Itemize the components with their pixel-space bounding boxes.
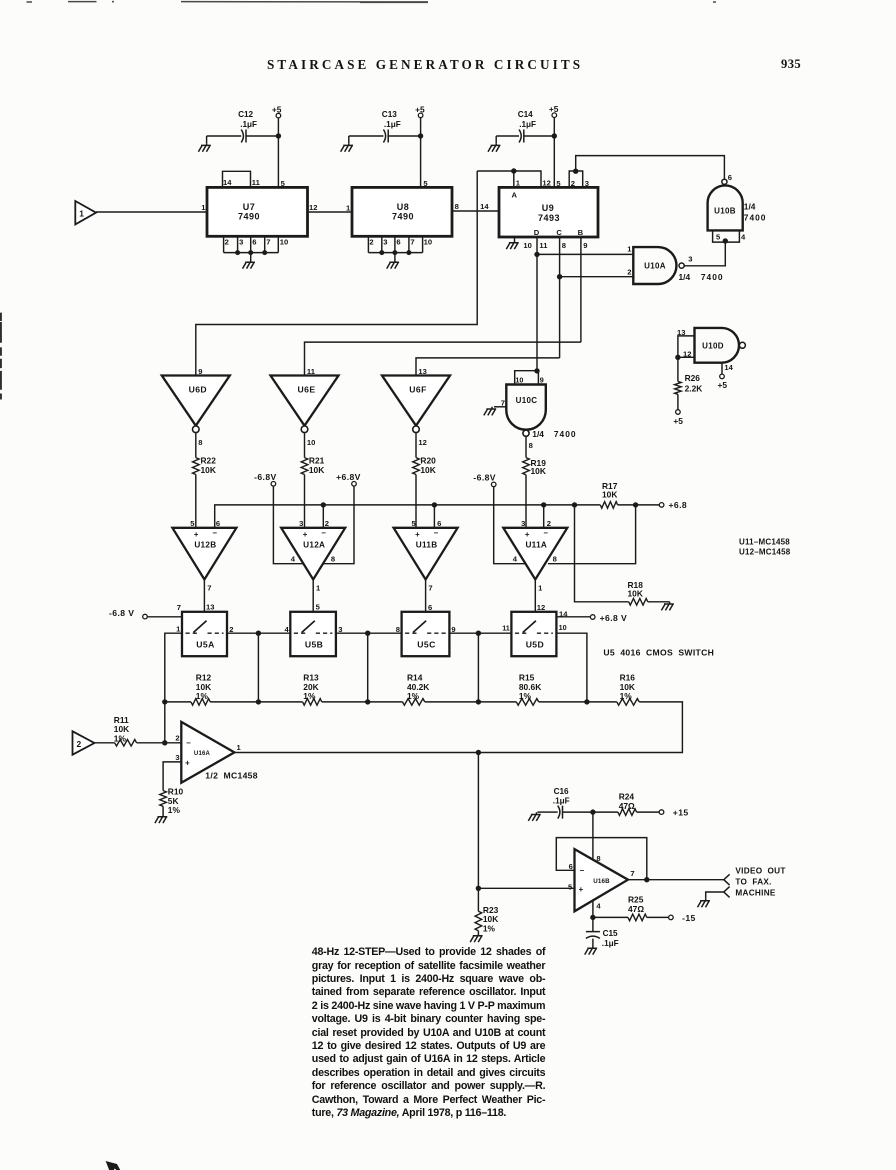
U8 pin8 label xyxy=(455,202,459,211)
wire junction to +5 terminal xyxy=(277,118,279,136)
U12A -input pin label xyxy=(325,519,329,528)
inverter U6F xyxy=(382,376,450,433)
wire junction to U16B pin8 xyxy=(592,812,594,859)
svg-text:B: B xyxy=(578,228,584,237)
svg-text:9: 9 xyxy=(583,241,587,250)
wire U16B output xyxy=(628,879,724,881)
capacitor C16 xyxy=(553,787,570,819)
junction switch link1 xyxy=(256,631,261,636)
input terminal 1 xyxy=(75,201,96,224)
U11B output pin label xyxy=(428,583,432,592)
input terminal 2 xyxy=(73,731,95,754)
svg-text:R20: R20 xyxy=(420,455,436,465)
svg-text:3: 3 xyxy=(338,625,342,634)
junction QD to U10A xyxy=(534,252,539,257)
svg-text:10: 10 xyxy=(515,375,523,384)
ground (R23) xyxy=(470,934,482,943)
svg-text:12: 12 xyxy=(418,438,426,447)
U9 reset pins 2-3 jumper xyxy=(569,171,583,187)
svg-text:+5: +5 xyxy=(272,105,282,115)
wire C12 to +5 junction xyxy=(246,135,278,137)
svg-text:1%: 1% xyxy=(483,924,496,934)
resistor R26 2.2K xyxy=(675,357,703,409)
U16B feedback loop wire xyxy=(556,838,647,880)
svg-text:R24: R24 xyxy=(619,791,635,801)
wire bus to U12A pin2 xyxy=(322,505,324,528)
svg-text:U9: U9 xyxy=(542,203,555,213)
junction U7 pin7 stub xyxy=(262,250,267,255)
U16A output pin1 label xyxy=(237,743,242,752)
wire U9 QB pin9 down xyxy=(580,237,582,342)
wire U5C pin9 to U5D pin11 xyxy=(449,632,511,634)
svg-text:+6.8V: +6.8V xyxy=(336,472,361,482)
U10A pin1 label xyxy=(627,245,632,254)
junction U16B output xyxy=(644,877,649,882)
svg-text:1: 1 xyxy=(627,245,632,254)
wire U9 QC pin8 down xyxy=(559,237,561,358)
U16B pin8 label xyxy=(596,854,600,863)
U11A output pin label xyxy=(538,583,543,592)
svg-text:.1μF: .1μF xyxy=(602,939,619,948)
junction bus link2 xyxy=(365,699,370,704)
U5 type note xyxy=(603,647,714,657)
analog switch U5D xyxy=(511,612,556,656)
U10C pin9 label xyxy=(540,375,544,384)
wire U5A pin1 to summing bus xyxy=(165,633,182,702)
svg-text:U10D: U10D xyxy=(702,341,724,350)
U10D input jumper xyxy=(678,336,695,357)
svg-text:3: 3 xyxy=(299,519,303,528)
wire -6.8V to U5A pin7 xyxy=(147,616,182,618)
video out label xyxy=(735,867,785,898)
wire summing node drop xyxy=(164,702,166,743)
svg-text:+5: +5 xyxy=(718,380,728,390)
svg-text:.1μF: .1μF xyxy=(553,796,570,805)
wire C14 to +5 junction xyxy=(524,135,555,137)
U12A output pin label xyxy=(316,583,321,592)
U11 U12 type note xyxy=(739,538,791,557)
capacitor C15 xyxy=(586,917,619,947)
wire U16A pin3 to R10 xyxy=(163,762,181,791)
wire U5B pin3 to U5C pin8 xyxy=(336,632,402,634)
junction pin4 net xyxy=(590,915,595,920)
svg-text:10K: 10K xyxy=(309,465,324,475)
nand gate U10D xyxy=(695,328,746,363)
svg-text:10: 10 xyxy=(523,241,531,250)
ground (C13) xyxy=(341,136,353,152)
U7 pin5 label xyxy=(281,179,286,188)
+5 terminal (C14) xyxy=(549,104,559,117)
wire U12B output to U5A pin13 xyxy=(203,580,205,612)
U10C pin8 label xyxy=(529,441,533,450)
wire bus to U11B pin6 xyxy=(433,505,435,528)
wire U12A output to U5B pin5 xyxy=(312,580,314,612)
wire +6.8V to U12A pin8 xyxy=(322,486,354,564)
svg-text:1%: 1% xyxy=(407,691,420,701)
svg-text:1: 1 xyxy=(316,583,321,592)
svg-text:U16A: U16A xyxy=(194,751,211,757)
wire +5 junction to U8 pin5 xyxy=(420,136,422,187)
U12A pin8 label xyxy=(331,554,335,563)
svg-text:6: 6 xyxy=(252,237,256,246)
capacitor C14 xyxy=(518,110,536,142)
svg-text:−: − xyxy=(580,866,585,875)
svg-text:4: 4 xyxy=(741,232,746,241)
svg-text:STAIRCASE GENERATOR CIRCUITS: STAIRCASE GENERATOR CIRCUITS xyxy=(267,57,583,72)
svg-text:1/2 MC1458: 1/2 MC1458 xyxy=(205,770,258,780)
wire U10C pin7 xyxy=(494,406,506,408)
svg-text:10: 10 xyxy=(280,237,288,246)
U8 bottom pin stubs xyxy=(368,237,422,253)
op-amp U12A xyxy=(281,528,345,580)
+5 terminal (U10D pin14) xyxy=(718,374,728,390)
svg-text:4: 4 xyxy=(284,625,289,634)
svg-text:.1μF: .1μF xyxy=(240,120,257,129)
svg-text:R22: R22 xyxy=(201,455,217,465)
svg-text:7: 7 xyxy=(177,603,181,612)
svg-text:6: 6 xyxy=(437,519,441,528)
ground (U8) xyxy=(387,253,399,269)
U7 bottom pin labels xyxy=(225,237,289,246)
junction U8 pin7 stub xyxy=(406,250,411,255)
junction bus U11B pin6 xyxy=(432,502,437,507)
svg-text:1/4: 1/4 xyxy=(744,201,756,211)
U10D pin12 label xyxy=(683,349,691,358)
U7 pin1 label xyxy=(201,203,206,212)
svg-text:47Ω: 47Ω xyxy=(619,801,635,811)
svg-text:935: 935 xyxy=(781,57,801,71)
svg-text:-6.8V: -6.8V xyxy=(254,472,277,482)
junction U9 pin1 riser xyxy=(511,168,516,173)
svg-text:8: 8 xyxy=(198,438,202,447)
svg-text:10K: 10K xyxy=(201,465,216,475)
svg-text:5: 5 xyxy=(316,602,321,611)
svg-text:U11B: U11B xyxy=(416,541,438,550)
U11B +input pin label xyxy=(411,519,416,528)
svg-text:3: 3 xyxy=(585,179,589,188)
U5D pin10 label xyxy=(559,623,567,632)
U5B pin3 label xyxy=(338,625,342,634)
junction bus U5D drop xyxy=(584,699,589,704)
wire bus to U11A pin2 xyxy=(543,505,545,528)
junction U16A output to U16B xyxy=(476,750,481,755)
junction bus U11A pin2 xyxy=(541,502,546,507)
svg-text:−: − xyxy=(543,528,548,537)
resistor R17 10K label xyxy=(602,481,618,500)
svg-text:7: 7 xyxy=(630,869,634,878)
svg-text:8: 8 xyxy=(529,441,533,450)
wire input1 to U7 pin1 xyxy=(96,211,207,213)
svg-text:+6.8 V: +6.8 V xyxy=(600,613,628,623)
svg-text:7490: 7490 xyxy=(392,212,414,222)
resistor R24 47ohm xyxy=(618,791,659,815)
svg-text:10: 10 xyxy=(559,623,567,632)
wire ground to C14 xyxy=(496,135,519,137)
counter U8 7490 xyxy=(352,187,452,236)
svg-text:U12–MC1458: U12–MC1458 xyxy=(739,548,791,557)
svg-text:47Ω: 47Ω xyxy=(628,904,644,914)
wire ground to C13 xyxy=(349,135,384,137)
svg-text:9: 9 xyxy=(198,367,202,376)
svg-text:4: 4 xyxy=(596,901,601,910)
svg-text:+5: +5 xyxy=(673,416,683,426)
junction bus link3 xyxy=(476,699,481,704)
wire reset to U10B output xyxy=(576,156,725,179)
U10C pin7 label xyxy=(501,398,505,407)
svg-text:U16B: U16B xyxy=(593,878,610,885)
svg-text:+5: +5 xyxy=(415,104,425,114)
U10C 1/4 7400 label xyxy=(532,429,576,439)
ground (C15) xyxy=(585,946,597,955)
ground (R18) xyxy=(661,602,673,611)
svg-text:12: 12 xyxy=(309,203,317,212)
ground (U10C pin7) xyxy=(484,407,496,416)
svg-text:2: 2 xyxy=(369,237,373,246)
svg-text:2: 2 xyxy=(547,519,551,528)
U8 pin1 label xyxy=(346,203,351,212)
junction U16B pin5 node xyxy=(476,886,481,891)
svg-text:10K: 10K xyxy=(628,589,643,599)
page top edge scan marks xyxy=(27,1,717,4)
resistor R10 5K 1% xyxy=(160,786,184,815)
svg-text:.1μF: .1μF xyxy=(384,120,401,129)
svg-text:+6.8: +6.8 xyxy=(669,500,688,510)
wire -6.8V to U11A pin4 xyxy=(494,487,527,564)
svg-text:2: 2 xyxy=(627,267,631,276)
wire ground to C16 xyxy=(542,811,558,813)
+6.8V terminal (U12A pin8) xyxy=(336,472,361,486)
svg-text:C13: C13 xyxy=(382,110,397,119)
svg-text:1%: 1% xyxy=(620,691,633,701)
svg-text:+15: +15 xyxy=(673,808,689,818)
capacitor C12 xyxy=(238,110,257,142)
svg-text:8: 8 xyxy=(396,625,400,634)
wire QA net to U6D input xyxy=(196,171,477,376)
U16B pin5 label xyxy=(568,883,573,892)
svg-text:R26: R26 xyxy=(685,373,701,383)
U16A pin3 label xyxy=(175,753,179,762)
inverter U6D xyxy=(162,376,230,433)
U11B -input pin label xyxy=(437,519,441,528)
U5C pin9 label xyxy=(451,625,455,634)
junction reset jumper xyxy=(573,169,578,174)
junction QD at U10C xyxy=(534,368,539,373)
U7 pin12 label xyxy=(309,203,317,212)
svg-text:1: 1 xyxy=(201,203,206,212)
counter U9 7493 xyxy=(499,187,598,237)
U16B pin6 label xyxy=(569,862,573,871)
U7 pin14 label xyxy=(223,178,232,187)
svg-text:14: 14 xyxy=(724,363,733,372)
svg-text:D: D xyxy=(534,228,540,237)
svg-text:1: 1 xyxy=(538,583,543,592)
junction U7 pin3 stub xyxy=(235,250,240,255)
junction bus U11A pin8 branch xyxy=(633,502,638,507)
wire U16B pin5 line xyxy=(478,887,574,889)
svg-text:2: 2 xyxy=(325,519,329,528)
junction U8 pin3 stub xyxy=(379,250,384,255)
U8 bottom pin labels xyxy=(369,237,432,246)
U7 pin11 label xyxy=(252,178,261,187)
wire U9 QD pin11 down xyxy=(536,237,538,371)
svg-text:U5D: U5D xyxy=(526,640,544,650)
svg-text:11: 11 xyxy=(502,623,510,632)
capacitor C13 xyxy=(382,110,401,142)
svg-text:4: 4 xyxy=(291,554,296,563)
U5A pin1 label xyxy=(176,625,181,634)
junction summing node xyxy=(162,740,167,745)
wire junction to R24 xyxy=(593,811,618,813)
video out chevron upper xyxy=(724,874,730,885)
U5C pin8 label xyxy=(396,625,400,634)
wire U5A pin2 to U5B pin4 xyxy=(227,632,290,634)
U12B output pin label xyxy=(207,583,211,592)
svg-text:7: 7 xyxy=(207,583,211,592)
svg-text:10K: 10K xyxy=(531,466,546,476)
svg-text:2: 2 xyxy=(175,734,179,743)
counter U7 7490 xyxy=(207,187,308,236)
U10B pin4 label xyxy=(741,232,746,241)
svg-text:7: 7 xyxy=(428,583,432,592)
svg-text:12: 12 xyxy=(542,178,550,187)
svg-text:-6.8V: -6.8V xyxy=(473,472,496,482)
svg-text:9: 9 xyxy=(451,625,455,634)
resistor R12 10K 1% xyxy=(191,672,212,705)
svg-text:8: 8 xyxy=(553,554,557,563)
wire R11 to U16A pin2 xyxy=(137,742,182,744)
svg-text:−: − xyxy=(434,528,439,537)
U8 pin5 label xyxy=(423,179,428,188)
svg-text:7400: 7400 xyxy=(554,429,577,439)
wire input2 to R11 xyxy=(94,742,114,744)
U9 pin14 label xyxy=(480,202,489,211)
ground (U7) xyxy=(243,253,255,269)
wire junction to +5 terminal (C14) xyxy=(553,117,555,136)
wire feedback loop to U16A output xyxy=(234,702,682,753)
U5A pin7 label xyxy=(177,603,181,612)
svg-text:−: − xyxy=(186,739,191,748)
svg-text:11: 11 xyxy=(539,241,548,250)
+5 terminal (R26) xyxy=(673,410,683,426)
svg-text:U10C: U10C xyxy=(516,396,538,405)
wire -6.8V to U12A pin4 xyxy=(273,486,305,564)
nand gate U10A xyxy=(633,247,684,284)
U10C input jumper xyxy=(515,371,539,385)
wire +6.8 to U11A pin8 xyxy=(548,505,636,564)
wire U8 pin8 to U9 pin14 xyxy=(452,210,499,212)
svg-text:11: 11 xyxy=(307,367,316,376)
svg-text:10: 10 xyxy=(424,237,432,246)
svg-text:7493: 7493 xyxy=(538,213,560,223)
+6.8V terminal (U5D pin14) xyxy=(590,613,627,623)
U5A pin13 label xyxy=(206,602,214,611)
+6.8 terminal (R17) xyxy=(659,500,687,510)
svg-text:9: 9 xyxy=(540,375,544,384)
svg-text:U12B: U12B xyxy=(194,541,216,550)
ground (R10) xyxy=(155,815,167,824)
resistor R18 10K xyxy=(628,580,670,605)
wire U11A output to U5D pin12 xyxy=(534,580,536,612)
resistor R16 10K 1% xyxy=(617,672,639,705)
junction (C14 net) xyxy=(552,133,557,138)
svg-text:3: 3 xyxy=(383,237,387,246)
resistor R11 10K 1% xyxy=(114,715,137,746)
U16A pin2 label xyxy=(175,734,179,743)
junction U8 pin6 stub xyxy=(392,250,397,255)
svg-text:C16: C16 xyxy=(554,787,569,796)
svg-text:+: + xyxy=(579,885,584,894)
svg-text:1%: 1% xyxy=(168,805,181,815)
svg-text:10K: 10K xyxy=(420,465,435,475)
wire ground to C12 xyxy=(207,135,242,137)
svg-text:11: 11 xyxy=(252,178,261,187)
svg-text:8: 8 xyxy=(455,202,459,211)
svg-text:-15: -15 xyxy=(682,913,696,923)
svg-text:A: A xyxy=(512,190,518,199)
junction bus left end xyxy=(162,699,167,704)
+15 terminal xyxy=(659,808,688,818)
svg-text:U12A: U12A xyxy=(303,541,325,550)
junction switch link2 xyxy=(365,631,370,636)
U5D pin14 label xyxy=(559,609,568,618)
svg-text:5: 5 xyxy=(568,883,573,892)
ground (C14) xyxy=(488,136,500,152)
junction U10D pin12 xyxy=(675,355,680,360)
U5C pin6 label xyxy=(428,603,432,612)
svg-text:+: + xyxy=(303,530,308,539)
wire summing bus seg1 xyxy=(165,701,191,703)
svg-text:U5C: U5C xyxy=(417,640,435,650)
svg-text:5: 5 xyxy=(716,232,721,241)
svg-text:7: 7 xyxy=(501,398,505,407)
+5 terminal (C12) xyxy=(272,105,282,118)
-15 terminal xyxy=(669,913,696,923)
U12A +input pin label xyxy=(299,519,303,528)
U10B pins 5-4 jumper xyxy=(713,230,740,242)
wire U7 pin12 to U8 pin1 xyxy=(308,211,353,213)
ground (C16) xyxy=(528,812,542,821)
wire QD to U10A input1 xyxy=(537,253,633,255)
wire link1 drop xyxy=(257,633,259,702)
junction bus link1 xyxy=(256,699,261,704)
U6F input pin label xyxy=(418,367,426,376)
inverter U6E xyxy=(271,376,339,433)
svg-text:U11A: U11A xyxy=(525,541,547,550)
U10B pin5 label xyxy=(716,232,721,241)
U11A -input pin label xyxy=(547,519,551,528)
analog switch U5C xyxy=(402,612,450,656)
U9 top pin labels xyxy=(516,178,589,187)
U6D output pin label xyxy=(198,438,202,447)
U7 bottom pin stubs xyxy=(224,237,279,253)
wire U10A output to U10B inputs xyxy=(684,242,725,266)
wire U11B output to U5C pin6 xyxy=(425,580,427,612)
junction bus R18 drop xyxy=(572,502,577,507)
U10A pin3 label xyxy=(688,254,692,263)
U12A pin4 label xyxy=(291,554,296,563)
wire U16B pin4 xyxy=(592,900,594,918)
U6D input pin label xyxy=(198,367,202,376)
wire summing bus seg4 xyxy=(425,701,517,703)
U10B 1/4 7400 label xyxy=(744,201,767,222)
U5D pin12 label xyxy=(537,603,545,612)
wire +5 junction to U7 pin5 xyxy=(277,136,279,187)
resistor R19 10K xyxy=(523,436,547,528)
svg-text:R21: R21 xyxy=(309,455,325,465)
svg-text:13: 13 xyxy=(206,602,214,611)
wire U9 pin12 to pin1 jumper xyxy=(477,171,541,187)
U10D pin13 label xyxy=(677,328,685,337)
